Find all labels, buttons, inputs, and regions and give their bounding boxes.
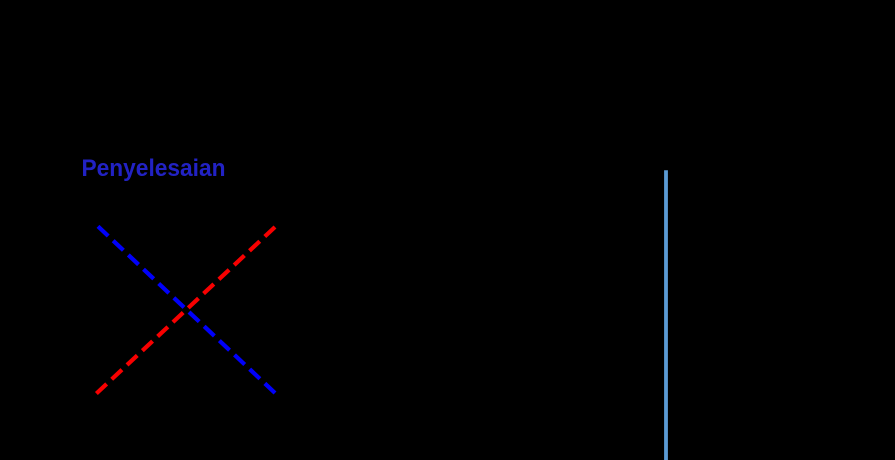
svg-text:Penyelesaian: Penyelesaian: [82, 155, 226, 182]
